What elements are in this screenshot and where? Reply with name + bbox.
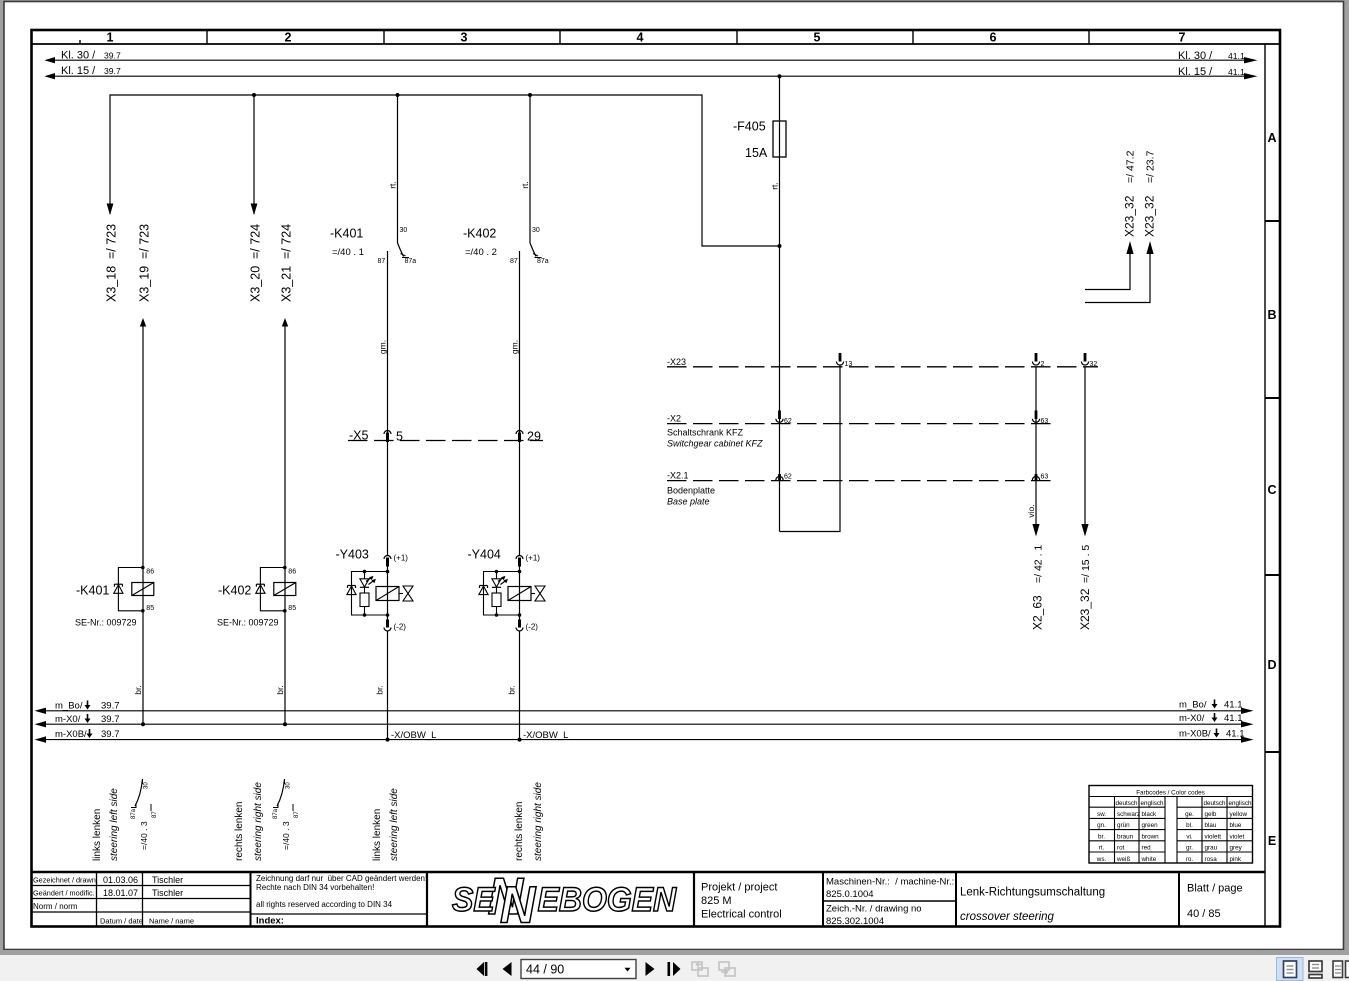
svg-text:=/ 47.2: =/ 47.2 (1125, 150, 1137, 183)
svg-text:825.302.1004: 825.302.1004 (826, 916, 884, 927)
connector pin -2 of Y403 (386, 620, 389, 628)
wire K402 diode branch (260, 568, 284, 611)
svg-text:=/40 . 1: =/40 . 1 (332, 247, 364, 258)
svg-text:ge.: ge. (1185, 811, 1194, 818)
svg-text:825 M: 825 M (701, 895, 732, 907)
svg-text:(-2): (-2) (394, 623, 407, 632)
note links lenken / steering left side 1 (92, 788, 120, 861)
svg-text:Norm / norm: Norm / norm (33, 902, 78, 911)
svg-text:-X/OBW_L: -X/OBW_L (391, 730, 436, 741)
nav first-page button (477, 962, 488, 976)
svg-text:44 / 90: 44 / 90 (526, 963, 564, 977)
svg-text:steering left side: steering left side (389, 788, 400, 861)
svg-text:87a: 87a (131, 808, 137, 819)
svg-text:pink: pink (1230, 856, 1242, 863)
toolbar background (0, 950, 1349, 955)
svg-text:-X2: -X2 (667, 414, 681, 424)
svg-text:30: 30 (144, 782, 150, 789)
svg-text:violett: violett (1205, 833, 1222, 840)
svg-text:86: 86 (146, 569, 154, 576)
reference arrow X23_32 =/47.2 (1085, 150, 1137, 289)
svg-text:green: green (1142, 822, 1159, 829)
connector pin -2 of Y404 (518, 620, 521, 628)
X23 pin 32 (1081, 353, 1097, 368)
svg-text:steering right side: steering right side (533, 782, 544, 861)
svg-text:Switchgear cabinet KFZ: Switchgear cabinet KFZ (667, 439, 763, 449)
wire main top bus (110, 95, 780, 246)
svg-text:-X23: -X23 (667, 357, 686, 367)
svg-text:30: 30 (400, 227, 408, 234)
svg-text:-Y404: -Y404 (468, 548, 501, 562)
junction dot on m-X0B (518, 738, 522, 742)
svg-text:grün: grün (1117, 822, 1130, 829)
svg-text:30: 30 (286, 782, 292, 789)
svg-text:Gezeichnet / drawn.: Gezeichnet / drawn. (33, 876, 98, 885)
svg-text:41.1: 41.1 (1228, 51, 1245, 61)
X5 pin 5 (384, 431, 391, 442)
junction dots on top bus (252, 93, 256, 97)
svg-text:Name / name: Name / name (149, 917, 194, 926)
svg-text:schwarz: schwarz (1117, 811, 1140, 818)
wire X21-62 to X23-13 (U-turn) (780, 365, 841, 532)
svg-text:A: A (1267, 131, 1276, 145)
svg-text:deutsch: deutsch (1203, 800, 1226, 807)
svg-text:Farbcodes / Color codes: Farbcodes / Color codes (1136, 790, 1205, 797)
fuse F405 (733, 74, 786, 531)
logo SENNEBOGEN (452, 867, 677, 934)
wire Y403 LED branch (364, 572, 366, 579)
bus m-X0 (35, 713, 1254, 727)
suppressor diode of Y403 (348, 585, 356, 587)
svg-text:vi.: vi. (1186, 833, 1193, 840)
svg-text:Kl. 15 /: Kl. 15 / (61, 65, 96, 77)
svg-text:30: 30 (532, 227, 540, 234)
svg-text:41.1: 41.1 (1226, 729, 1245, 740)
svg-text:=/ 724: =/ 724 (249, 224, 263, 259)
svg-text:15A: 15A (745, 146, 768, 160)
suppressor diode of Y404 (480, 585, 488, 587)
svg-text:87: 87 (152, 811, 158, 818)
svg-text:39.7: 39.7 (104, 66, 121, 76)
node X3_19 wire (133, 224, 152, 726)
svg-text:br.: br. (275, 685, 285, 694)
svg-text:Maschinen-Nr.: / machine-Nr.:: Maschinen-Nr.: / machine-Nr.: (826, 877, 954, 888)
wire Y403 to bus m-X0B (387, 631, 389, 740)
title block notice cell (256, 874, 427, 927)
svg-text:m_Bo/: m_Bo/ (1179, 700, 1207, 711)
svg-text:Zeichnung darf nur über CAD g: Zeichnung darf nur über CAD geändert wer… (256, 874, 427, 883)
svg-text:Tischler: Tischler (152, 875, 183, 885)
junction dots Y404 bottom rail (518, 613, 522, 617)
svg-text:85: 85 (146, 605, 154, 612)
svg-text:Projekt / project: Projekt / project (701, 882, 777, 894)
svg-text:C: C (1267, 483, 1276, 497)
svg-text:Rechte nach DIN 34 vorbehalten: Rechte nach DIN 34 vorbehalten! (256, 883, 374, 892)
svg-text:18.01.07: 18.01.07 (103, 888, 138, 898)
svg-text:13: 13 (845, 361, 853, 368)
wire X23-2 down with arrow (1026, 367, 1045, 630)
svg-text:87: 87 (510, 258, 518, 265)
svg-text:links lenken: links lenken (372, 809, 383, 861)
svg-text:englisch: englisch (1140, 800, 1164, 807)
svg-text:29: 29 (527, 430, 541, 444)
svg-text:87a: 87a (537, 258, 549, 265)
diode V401 across coil (114, 583, 122, 585)
title block page cell (1187, 883, 1243, 921)
wire Y403 parallel bracket (352, 572, 388, 616)
svg-text:br.: br. (1098, 833, 1105, 840)
svg-text:m_Bo/: m_Bo/ (55, 701, 83, 712)
svg-text:rosa: rosa (1205, 856, 1218, 863)
svg-text:3: 3 (461, 31, 468, 45)
X2 pin 62 (776, 411, 792, 426)
title block project cell (701, 882, 782, 921)
valve solenoid -Y403 (336, 548, 437, 742)
svg-text:41.1: 41.1 (1224, 713, 1243, 724)
solenoid coil body -Y403 (376, 587, 399, 601)
contact K401 (changeover) (330, 95, 416, 265)
svg-text:-F405: -F405 (733, 120, 766, 134)
view continuous (1309, 961, 1322, 978)
svg-text:Schaltschrank KFZ: Schaltschrank KFZ (667, 428, 744, 438)
svg-text:steering right side: steering right side (253, 782, 264, 861)
svg-text:crossover steering: crossover steering (960, 911, 1055, 923)
view facing pages (1333, 961, 1349, 978)
history back icon (disabled) (692, 962, 708, 976)
note rechts lenken / steering right side 2 (514, 782, 544, 861)
svg-text:=/ 15 . 5: =/ 15 . 5 (1080, 545, 1092, 583)
svg-text:X3_19: X3_19 (138, 266, 152, 302)
title block texts left (33, 875, 194, 926)
color codes table (1089, 786, 1253, 864)
svg-text:87: 87 (378, 258, 386, 265)
svg-text:825.0.1004: 825.0.1004 (826, 889, 874, 900)
svg-text:X23_32: X23_32 (1123, 195, 1137, 237)
svg-text:Tischler: Tischler (152, 888, 183, 898)
svg-text:87a: 87a (273, 808, 279, 819)
svg-text:39.7: 39.7 (104, 51, 121, 61)
svg-text:SE-Nr.: 009729: SE-Nr.: 009729 (217, 618, 279, 628)
svg-text:-X2.1: -X2.1 (667, 471, 689, 481)
svg-text:gelb: gelb (1205, 811, 1217, 818)
note links lenken / steering left side 2 (372, 788, 400, 861)
coil body -K402 (274, 583, 296, 596)
diode V402 across coil (256, 583, 264, 585)
svg-text:=/ 723: =/ 723 (105, 224, 119, 259)
svg-text:4: 4 (637, 31, 644, 45)
svg-text:m-X0B/: m-X0B/ (55, 729, 87, 740)
svg-text:B: B (1267, 308, 1276, 322)
svg-text:gr.: gr. (1186, 845, 1193, 852)
svg-text:Blatt / page: Blatt / page (1187, 883, 1243, 895)
svg-text:-X5: -X5 (349, 429, 369, 443)
history fwd icon (disabled) (719, 962, 735, 976)
X5 pin 29 (516, 431, 523, 442)
LED indicator of Y404 (492, 579, 501, 587)
wire K402-87 down (510, 251, 520, 555)
svg-text:86: 86 (288, 569, 296, 576)
svg-text:Kl. 30 /: Kl. 30 / (61, 50, 96, 62)
svg-text:63: 63 (1041, 474, 1049, 481)
svg-text:red: red (1142, 845, 1152, 852)
svg-text:=/40 . 3: =/40 . 3 (139, 821, 149, 850)
bus Kl.30 (45, 50, 1258, 64)
svg-text:m-X0/: m-X0/ (1179, 713, 1205, 724)
svg-text:87a: 87a (405, 258, 417, 265)
svg-text:(+1): (+1) (394, 554, 409, 563)
svg-text:X23_32: X23_32 (1143, 195, 1157, 237)
svg-text:2: 2 (1041, 361, 1045, 368)
connector X2 (667, 414, 1055, 449)
X23 pin 2 (1032, 353, 1044, 368)
wire K401-87 down (378, 251, 388, 555)
svg-text:-K402: -K402 (218, 584, 251, 598)
svg-text:white: white (1141, 856, 1157, 863)
svg-text:br.: br. (133, 685, 143, 694)
svg-text:85: 85 (288, 605, 296, 612)
svg-text:vio.: vio. (1026, 504, 1036, 517)
svg-text:gn.: gn. (1097, 822, 1106, 829)
wire X23-32 down with arrow (1078, 367, 1092, 630)
relay coil -K402 (217, 566, 296, 628)
valve actuator symbol of Y404 (531, 593, 535, 595)
wire Y404 center branch (519, 564, 521, 621)
svg-text:Lenk-Richtungsumschaltung: Lenk-Richtungsumschaltung (960, 887, 1105, 899)
svg-text:blau: blau (1205, 822, 1217, 829)
svg-text:1: 1 (107, 31, 114, 45)
nav prev button (503, 962, 512, 976)
node X3_21 wire (275, 224, 294, 726)
svg-text:D: D (1267, 658, 1276, 672)
svg-text:5: 5 (396, 430, 403, 444)
svg-text:X3_21: X3_21 (280, 266, 294, 302)
view single page (selected) (1277, 958, 1304, 981)
svg-text:all rights reserved according: all rights reserved according to DIN 34 (256, 900, 393, 909)
X23 pin 13 (836, 353, 852, 368)
svg-text:39.7: 39.7 (101, 701, 120, 712)
svg-text:rot: rot (1117, 845, 1125, 852)
svg-text:rt.: rt. (520, 181, 530, 189)
svg-text:-K401: -K401 (76, 584, 109, 598)
title block drawing name cell (960, 887, 1105, 924)
svg-text:weiß: weiß (1116, 856, 1130, 863)
svg-text:steering left side: steering left side (109, 788, 120, 861)
nav next button (646, 962, 655, 976)
svg-text:62: 62 (784, 418, 792, 425)
svg-text:41.1: 41.1 (1224, 700, 1243, 711)
resistor of Y403 LED branch (360, 593, 369, 607)
svg-text:Electrical control: Electrical control (701, 909, 782, 921)
svg-text:Datum / date: Datum / date (100, 917, 143, 926)
page combo box (521, 960, 636, 979)
svg-text:rt.: rt. (1099, 845, 1105, 852)
svg-text:grau: grau (1205, 845, 1218, 852)
connector X5 (348, 429, 543, 444)
svg-text:-X/OBW_L: -X/OBW_L (523, 730, 568, 741)
svg-text:Geändert / modific.: Geändert / modific. (33, 889, 95, 898)
junction dot K401 pin 86 (141, 566, 145, 570)
svg-text:ws.: ws. (1096, 856, 1107, 863)
contact ref =/40.3 mini switch 1 (131, 779, 158, 850)
svg-text:gm.: gm. (378, 340, 388, 354)
svg-text:39.7: 39.7 (101, 714, 120, 725)
svg-text:Kl. 15 /: Kl. 15 / (1178, 66, 1213, 78)
fuse body F405 (773, 121, 786, 157)
svg-text:X23_32: X23_32 (1078, 588, 1092, 630)
svg-text:=/40 . 2: =/40 . 2 (465, 247, 497, 258)
svg-text:links lenken: links lenken (92, 809, 103, 861)
LED indicator of Y403 (360, 579, 369, 587)
svg-text:-K401: -K401 (330, 227, 363, 241)
connector X23 (667, 357, 1098, 367)
svg-text:N: N (500, 875, 537, 934)
svg-text:87: 87 (294, 811, 300, 818)
svg-text:blue: blue (1230, 822, 1242, 829)
title block frame (32, 872, 1266, 927)
svg-text:-Y403: -Y403 (336, 548, 369, 562)
column numbers 1-7 (107, 31, 1186, 45)
wire K401 diode branch (118, 568, 142, 611)
svg-text:2: 2 (285, 31, 292, 45)
wire Y404 parallel bracket (484, 572, 520, 616)
svg-text:m-X0/: m-X0/ (55, 714, 81, 725)
svg-text:=/ 724: =/ 724 (280, 224, 294, 259)
X2.1 pin 63 (1032, 474, 1048, 481)
svg-text:br.: br. (375, 685, 385, 694)
valve actuator symbol of Y403 (399, 593, 403, 595)
svg-text:7: 7 (1179, 31, 1186, 45)
bus m_Bo (35, 700, 1254, 715)
contact ref =/40.3 mini switch 2 (273, 779, 300, 850)
note rechts lenken / steering right side 1 (234, 782, 264, 861)
svg-text:41.1: 41.1 (1228, 67, 1245, 77)
svg-text:Base plate: Base plate (667, 497, 710, 507)
svg-text:E: E (1268, 834, 1276, 848)
connector X2.1 (667, 471, 1055, 507)
svg-text:brown: brown (1142, 833, 1160, 840)
svg-text:br.: br. (507, 685, 517, 694)
svg-text:EBOGEN: EBOGEN (538, 880, 678, 918)
svg-text:(-2): (-2) (526, 623, 539, 632)
wire Y404 to bus m-X0B (519, 631, 521, 740)
row band dividers (1265, 221, 1280, 752)
reference arrow X23_32 =/23.7 (1085, 150, 1157, 302)
svg-text:yellow: yellow (1230, 811, 1248, 818)
column header ticks (80, 30, 1089, 44)
junction dot K402 pin 85 (283, 609, 287, 613)
svg-text:violet: violet (1230, 833, 1245, 840)
svg-text:braun: braun (1117, 833, 1134, 840)
solenoid coil body -Y404 (508, 587, 531, 601)
svg-text:=/ 723: =/ 723 (138, 224, 152, 259)
junction dot on m-X0B (386, 738, 390, 742)
bus m-X0B (35, 729, 1254, 743)
svg-text:englisch: englisch (1228, 800, 1252, 807)
svg-text:gm.: gm. (510, 340, 520, 354)
svg-text:sw.: sw. (1097, 811, 1106, 818)
svg-text:ro.: ro. (1186, 856, 1194, 863)
svg-text:Index:: Index: (256, 916, 284, 927)
svg-text:=/ 42 . 1: =/ 42 . 1 (1033, 545, 1045, 583)
svg-text:63: 63 (1041, 418, 1049, 425)
wire Y403 center branch (387, 564, 389, 621)
svg-text:Zeich.-Nr. / drawing no: Zeich.-Nr. / drawing no (826, 904, 922, 915)
svg-text:=/40 . 3: =/40 . 3 (281, 821, 291, 850)
coil body -K401 (132, 583, 154, 596)
svg-text:=/ 23.7: =/ 23.7 (1145, 150, 1157, 183)
wire Y404 LED branch (496, 572, 498, 579)
junction dot K401 pin 85 (141, 609, 145, 613)
svg-text:rt.: rt. (388, 181, 398, 189)
svg-text:X3_20: X3_20 (249, 266, 263, 302)
relay coil -K401 (75, 566, 154, 628)
svg-text:SE: SE (452, 880, 496, 918)
junction dots Y403 bottom rail (386, 613, 390, 617)
color codes texts (1096, 790, 1252, 863)
valve solenoid -Y404 (468, 548, 569, 742)
connector pin +1 of Y403 (384, 556, 391, 560)
svg-text:rechts lenken: rechts lenken (234, 802, 245, 861)
svg-text:(+1): (+1) (526, 554, 541, 563)
connector pin +1 of Y404 (516, 556, 523, 560)
nav last-page button (668, 962, 681, 976)
svg-text:SE-Nr.: 009729: SE-Nr.: 009729 (75, 618, 137, 628)
svg-text:X2_63: X2_63 (1031, 595, 1045, 630)
svg-text:m-X0B/: m-X0B/ (1179, 729, 1211, 740)
node X3_20 arrow (249, 95, 263, 302)
resistor of Y404 LED branch (492, 593, 501, 607)
svg-text:Bodenplatte: Bodenplatte (667, 486, 715, 496)
junction dots Y404 top rail (518, 570, 522, 574)
row letters A-E (1267, 131, 1276, 848)
node X3_18 arrow (105, 204, 119, 303)
svg-text:5: 5 (814, 31, 821, 45)
svg-text:32: 32 (1090, 361, 1098, 368)
svg-text:grey: grey (1230, 845, 1243, 852)
X2 pin 63 (1032, 411, 1048, 426)
svg-text:39.7: 39.7 (101, 729, 120, 740)
svg-text:black: black (1142, 811, 1158, 818)
svg-text:40 / 85: 40 / 85 (1187, 908, 1221, 920)
svg-text:01.03.06: 01.03.06 (103, 875, 138, 885)
svg-text:rt.: rt. (770, 182, 780, 190)
X2.1 pin 62 (776, 474, 792, 481)
contact K402 (changeover) (463, 95, 549, 265)
junction dot K402 pin 86 (283, 566, 287, 570)
svg-text:X3_18: X3_18 (105, 266, 119, 302)
bus Kl.15 (45, 65, 1258, 79)
title block machine nr cell (826, 877, 954, 928)
svg-text:-K402: -K402 (463, 227, 496, 241)
svg-text:62: 62 (784, 474, 792, 481)
svg-text:6: 6 (990, 31, 997, 45)
svg-text:Kl. 30 /: Kl. 30 / (1178, 50, 1213, 62)
svg-text:rechts lenken: rechts lenken (514, 802, 525, 861)
junction dots Y403 top rail (386, 570, 390, 574)
svg-text:deutsch: deutsch (1115, 800, 1138, 807)
svg-text:bl.: bl. (1186, 822, 1193, 829)
